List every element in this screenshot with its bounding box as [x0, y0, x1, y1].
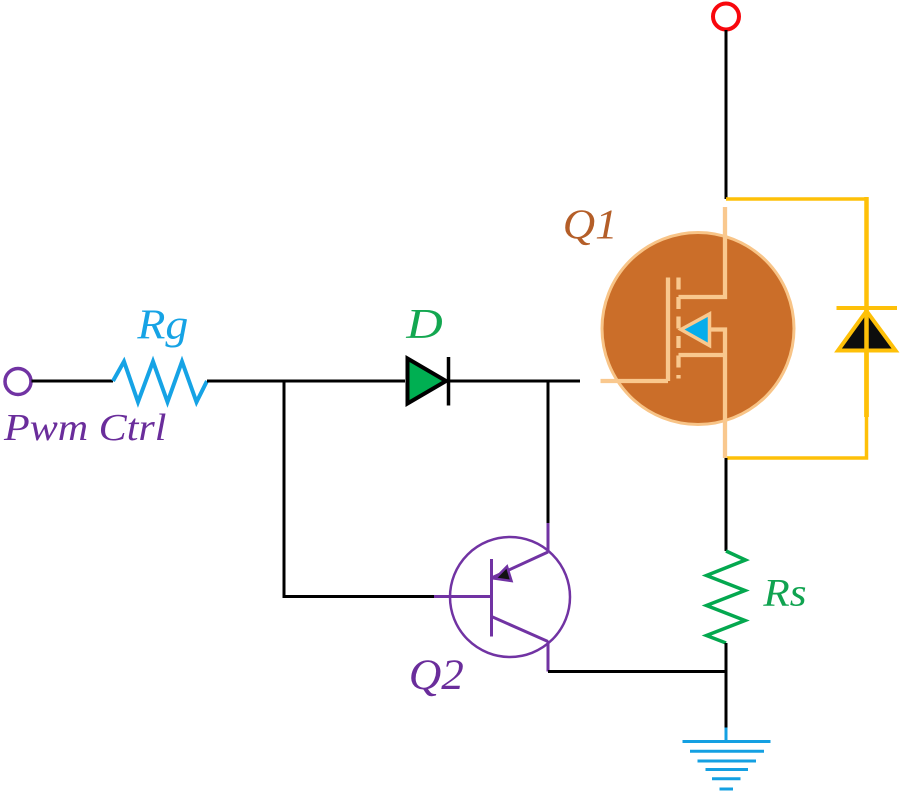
- node Pwm input terminal (purple): [5, 369, 31, 395]
- svg-text:Q1: Q1: [563, 202, 618, 249]
- transistor Q1 body arrow (cyan): [681, 314, 710, 346]
- transistor Q1 gate bar: [666, 278, 670, 382]
- diode body diode lead over triangle: [864, 308, 869, 417]
- wire branch down to Q2 emitter: [547, 381, 550, 523]
- node Vin terminal (red): [713, 4, 739, 30]
- wire Q2 collector to Rs bottom node: [548, 670, 726, 673]
- diode body diode cathode bar: [837, 306, 898, 310]
- svg-text:Q2: Q2: [409, 650, 464, 699]
- transistor Q2 base bar: [490, 559, 493, 637]
- diode body diode anode triangle: [838, 311, 896, 351]
- transistor Q2 body circle: [450, 537, 570, 657]
- svg-text:Rs: Rs: [762, 570, 806, 614]
- wire input to Rg: [32, 380, 114, 383]
- transistor Q1 channel dashed line: [676, 278, 680, 379]
- transistor Q1 source vertical lead: [723, 355, 727, 458]
- transistor Q2 emitter arrow: [495, 567, 512, 582]
- wire Rs to ground: [725, 643, 728, 728]
- wire body-diode loop (yellow U): [726, 199, 867, 458]
- transistor Q1 source branch: [679, 353, 726, 357]
- resistor Rs: [707, 551, 746, 643]
- svg-text:Rg: Rg: [136, 301, 188, 348]
- transistor Q1 body branch: [709, 330, 725, 356]
- wire Q1 source to Rs: [725, 458, 728, 551]
- transistor Q2 emitter diagonal: [492, 552, 549, 578]
- diode D cathode bar: [447, 357, 451, 406]
- transistor Q1 gate lead: [601, 379, 669, 383]
- wire drain supply vertical: [725, 30, 728, 199]
- resistor Rg: [113, 362, 207, 403]
- ground: [683, 728, 771, 790]
- wire diode D to Q1 gate: [449, 380, 581, 383]
- transistor Q2 collector diagonal: [492, 617, 549, 642]
- diode body diode lead: [864, 197, 869, 417]
- diode D anode triangle: [408, 359, 447, 404]
- transistor Q2 collector lead vertical (purple): [547, 641, 550, 672]
- transistor Q2 base lead: [434, 595, 492, 598]
- wire branch down to Q2 base: [284, 381, 434, 597]
- transistor Q2 emitter lead vertical (purple): [547, 523, 550, 553]
- svg-text:Pwm Ctrl: Pwm Ctrl: [3, 406, 167, 449]
- transistor Q1 drain branch: [679, 207, 726, 297]
- svg-text:D: D: [405, 302, 442, 348]
- transistor Q1 MOSFET body circle: [602, 233, 794, 425]
- wire Rg to diode D: [207, 380, 405, 383]
